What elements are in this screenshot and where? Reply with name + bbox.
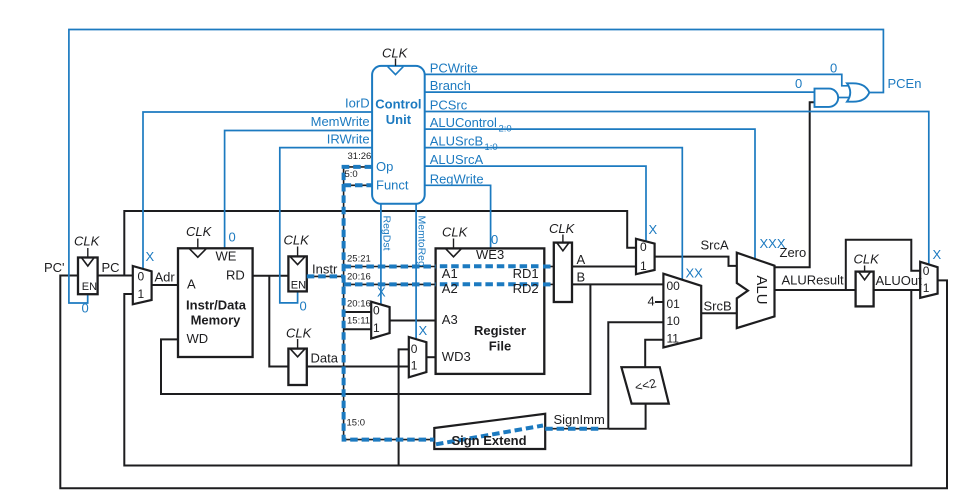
svg-text:SrcB: SrcB [704, 299, 732, 314]
svg-text:File: File [489, 339, 511, 354]
svg-text:15:11: 15:11 [347, 316, 370, 327]
svg-text:Instr/Data: Instr/Data [186, 298, 247, 313]
svg-text:0: 0 [830, 61, 837, 76]
svg-text:PCSrc: PCSrc [430, 98, 468, 113]
svg-text:X: X [933, 247, 942, 262]
svg-text:01: 01 [667, 297, 681, 311]
svg-text:RD2: RD2 [513, 281, 539, 296]
svg-text:25:21: 25:21 [347, 254, 371, 265]
svg-text:CLK: CLK [382, 46, 409, 61]
svg-text:Sign Extend: Sign Extend [451, 433, 526, 448]
svg-text:PC: PC [102, 260, 120, 275]
svg-text:SignImm: SignImm [554, 412, 605, 427]
svg-text:X: X [419, 323, 428, 338]
svg-text:Branch: Branch [430, 78, 471, 93]
svg-text:1: 1 [373, 321, 380, 335]
svg-text:ALUControl: ALUControl [430, 115, 497, 130]
svg-text:2:0: 2:0 [499, 123, 512, 134]
svg-text:CLK: CLK [286, 326, 313, 341]
svg-text:X: X [146, 249, 155, 264]
svg-text:IRWrite: IRWrite [327, 132, 370, 147]
svg-text:Memory: Memory [191, 313, 242, 328]
svg-text:Register: Register [474, 323, 526, 338]
svg-text:X: X [649, 222, 658, 237]
svg-text:0: 0 [229, 230, 236, 245]
svg-text:MemtoReg: MemtoReg [415, 216, 427, 268]
svg-text:0: 0 [373, 304, 380, 318]
svg-text:Funct: Funct [376, 178, 409, 193]
svg-text:EN: EN [82, 281, 97, 293]
svg-text:A: A [187, 277, 196, 292]
svg-text:1: 1 [923, 281, 930, 295]
svg-text:0: 0 [82, 301, 89, 316]
svg-text:A1: A1 [442, 266, 458, 281]
svg-text:SrcA: SrcA [701, 238, 730, 253]
svg-text:11: 11 [667, 332, 680, 346]
svg-text:20:16: 20:16 [347, 272, 371, 283]
svg-text:0: 0 [411, 342, 418, 356]
svg-text:EN: EN [291, 280, 306, 292]
svg-text:RegDst: RegDst [381, 216, 393, 251]
svg-text:CLK: CLK [186, 224, 213, 239]
svg-text:ALU: ALU [753, 275, 770, 304]
svg-text:XXX: XXX [760, 236, 786, 251]
svg-text:15:0: 15:0 [347, 418, 366, 429]
svg-text:00: 00 [667, 279, 681, 293]
svg-text:0: 0 [795, 76, 802, 91]
svg-text:1: 1 [411, 359, 418, 373]
svg-text:RD1: RD1 [513, 266, 539, 281]
svg-text:Adr: Adr [155, 270, 176, 285]
svg-text:0: 0 [640, 240, 647, 254]
svg-text:ALUSrcB: ALUSrcB [430, 134, 483, 149]
svg-text:B: B [577, 270, 586, 285]
svg-text:CLK: CLK [442, 224, 469, 239]
svg-text:WE3: WE3 [476, 247, 504, 262]
svg-text:4: 4 [648, 294, 655, 309]
svg-text:Data: Data [311, 351, 339, 366]
svg-text:0: 0 [491, 232, 498, 247]
svg-text:A: A [577, 252, 586, 267]
svg-text:CLK: CLK [284, 232, 311, 247]
svg-text:PCWrite: PCWrite [430, 60, 478, 75]
svg-text:CLK: CLK [549, 221, 576, 236]
svg-text:RegWrite: RegWrite [430, 171, 484, 186]
svg-text:0: 0 [923, 264, 930, 278]
svg-text:ALUSrcA: ALUSrcA [430, 152, 484, 167]
svg-text:1:0: 1:0 [485, 142, 498, 153]
svg-text:MemWrite: MemWrite [311, 114, 370, 129]
svg-text:Instr: Instr [312, 262, 338, 277]
svg-text:Control: Control [375, 97, 421, 112]
svg-text:PCEn: PCEn [888, 76, 922, 91]
svg-text:0: 0 [300, 299, 307, 314]
svg-text:10: 10 [667, 314, 681, 328]
svg-text:ALUResult: ALUResult [782, 273, 845, 288]
svg-text:XX: XX [686, 266, 704, 281]
svg-text:RD: RD [226, 268, 245, 283]
svg-text:1: 1 [640, 259, 647, 273]
svg-text:Unit: Unit [386, 112, 412, 127]
svg-text:Op: Op [376, 159, 393, 174]
svg-text:A2: A2 [442, 281, 458, 296]
svg-text:WD: WD [187, 331, 209, 346]
svg-text:ALUOut: ALUOut [876, 273, 923, 288]
svg-text:0: 0 [138, 269, 145, 283]
svg-text:20:16: 20:16 [347, 299, 371, 310]
svg-text:CLK: CLK [74, 234, 101, 249]
svg-text:5:0: 5:0 [345, 169, 358, 180]
svg-text:1: 1 [138, 287, 145, 301]
svg-text:X: X [377, 285, 386, 300]
svg-text:IorD: IorD [345, 96, 370, 111]
svg-text:WE: WE [216, 249, 237, 264]
svg-text:WD3: WD3 [442, 349, 471, 364]
svg-text:PC': PC' [44, 260, 65, 275]
svg-text:CLK: CLK [854, 252, 881, 267]
svg-text:31:26: 31:26 [348, 151, 372, 162]
svg-text:A3: A3 [442, 312, 458, 327]
